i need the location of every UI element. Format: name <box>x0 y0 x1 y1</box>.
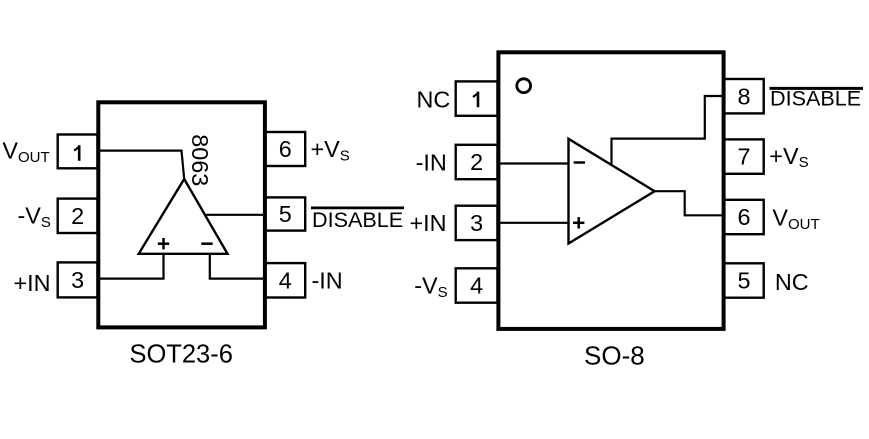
svg-text:6: 6 <box>737 204 750 230</box>
svg-text:3: 3 <box>470 210 483 236</box>
svg-text:2: 2 <box>71 203 84 229</box>
svg-text:5: 5 <box>279 201 292 227</box>
svg-text:VOUT: VOUT <box>772 205 819 233</box>
svg-text:VOUT: VOUT <box>2 137 49 165</box>
svg-text:-VS: -VS <box>414 273 447 301</box>
svg-text:DISABLE: DISABLE <box>312 207 403 232</box>
svg-text:NC: NC <box>775 269 809 295</box>
svg-text:NC: NC <box>417 87 451 113</box>
svg-text:6: 6 <box>279 136 292 162</box>
svg-text:-VS: -VS <box>18 203 51 231</box>
svg-text:+VS: +VS <box>769 143 808 171</box>
svg-text:-IN: -IN <box>416 150 447 176</box>
svg-text:+VS: +VS <box>311 136 350 164</box>
svg-text:+IN: +IN <box>409 210 446 236</box>
svg-text:-IN: -IN <box>312 267 343 293</box>
svg-text:SOT23-6: SOT23-6 <box>129 341 232 369</box>
svg-text:4: 4 <box>470 273 483 299</box>
svg-text:2: 2 <box>470 149 483 175</box>
svg-text:4: 4 <box>279 267 292 293</box>
svg-text:SO-8: SO-8 <box>584 341 645 371</box>
svg-text:+IN: +IN <box>14 270 51 296</box>
svg-text:8063: 8063 <box>187 134 213 186</box>
svg-text:5: 5 <box>737 268 750 294</box>
svg-text:8: 8 <box>737 83 750 109</box>
svg-text:3: 3 <box>71 267 84 293</box>
svg-text:7: 7 <box>737 144 750 170</box>
